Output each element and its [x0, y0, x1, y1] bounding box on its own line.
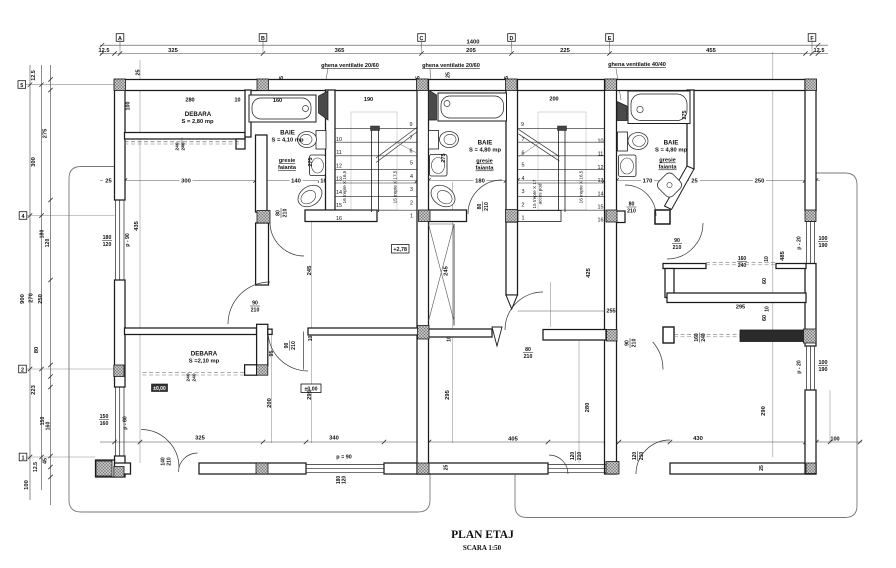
- staircase 1 treads: [335, 128, 417, 130]
- svg-text:S = 4,80 mp: S = 4,80 mp: [655, 148, 688, 154]
- svg-text:S = 4,80 mp: S = 4,80 mp: [469, 148, 502, 154]
- unit1 corridor wall east: [308, 328, 429, 335]
- bottom wall segment B: [199, 463, 306, 474]
- top dimension line 1400: [100, 44, 828, 46]
- sink 3: [619, 155, 637, 177]
- svg-text:90: 90: [674, 238, 680, 244]
- svg-text:160: 160: [273, 98, 282, 104]
- unit2 corridor wall west: [429, 329, 493, 337]
- toilet 1: [316, 131, 326, 150]
- staircase 2 rails: [558, 128, 560, 212]
- svg-text:160: 160: [46, 422, 52, 431]
- svg-text:4: 4: [522, 176, 525, 182]
- level marker +2.78: [392, 245, 410, 254]
- svg-text:6: 6: [410, 149, 413, 155]
- grid bubble 1: [19, 453, 27, 461]
- baie3 south wall west: [617, 211, 626, 223]
- baie1 west wall: [256, 135, 268, 212]
- void shaft with X bracing: [453, 224, 455, 326]
- grid bubble 4: [19, 212, 27, 220]
- svg-text:150: 150: [100, 414, 109, 420]
- svg-text:DEBARA: DEBARA: [191, 351, 218, 358]
- svg-text:3: 3: [410, 187, 413, 193]
- grid line 4: [26, 215, 115, 217]
- closet wall w1: [663, 264, 706, 269]
- svg-text:60: 60: [762, 315, 768, 321]
- svg-text:25: 25: [105, 178, 112, 184]
- svg-text:10: 10: [765, 306, 771, 312]
- debara2 wall foot: [245, 365, 257, 375]
- window bottom (p=90): [306, 464, 384, 466]
- svg-text:160: 160: [694, 333, 700, 342]
- right wall upper segment: [805, 80, 816, 211]
- door baie2: [468, 180, 502, 214]
- svg-text:p = 90: p = 90: [336, 455, 351, 461]
- column E mid: [606, 210, 617, 222]
- svg-text:25: 25: [136, 70, 142, 76]
- bottom wall segment C: [384, 463, 548, 474]
- staircase 1 up-diagonals: [376, 128, 417, 159]
- svg-text:280: 280: [185, 98, 194, 104]
- svg-text:p - 20: p - 20: [797, 360, 803, 374]
- closet wall west: [665, 269, 674, 298]
- svg-text:190: 190: [819, 243, 828, 249]
- svg-text:gresie: gresie: [279, 158, 295, 164]
- column E bottom: [606, 462, 619, 475]
- svg-text:210: 210: [484, 202, 490, 211]
- svg-text:485: 485: [780, 250, 786, 260]
- door debara2: [228, 282, 270, 324]
- svg-text:100: 100: [126, 102, 132, 111]
- unit2 door leaf arrow: [492, 327, 502, 346]
- svg-text:455: 455: [706, 48, 716, 54]
- svg-text:p - 60: p - 60: [123, 416, 129, 430]
- column left mid: [114, 365, 124, 377]
- svg-text:25: 25: [444, 465, 450, 471]
- window left lower (150/160): [115, 387, 117, 456]
- baie3 diagonal wall: [665, 166, 695, 210]
- svg-text:325: 325: [168, 48, 178, 54]
- debara2 wall nib: [268, 329, 272, 334]
- svg-text:90: 90: [284, 343, 290, 349]
- svg-text:1: 1: [22, 455, 25, 461]
- ghena shaft 3: [617, 102, 627, 121]
- y180 labels: [103, 176, 114, 184]
- svg-text:80: 80: [629, 202, 635, 208]
- svg-text:200: 200: [267, 398, 273, 408]
- svg-text:ghena ventilatie 20/60: ghena ventilatie 20/60: [321, 63, 379, 69]
- svg-text:13: 13: [598, 178, 604, 184]
- svg-text:90: 90: [625, 340, 631, 346]
- hall wall below baie1: [256, 223, 269, 285]
- debara1 wall step block: [236, 139, 245, 149]
- right wall lower segment: [805, 390, 816, 474]
- closet south wall: [667, 293, 806, 303]
- column C corridor: [418, 326, 430, 340]
- dashed wardrobe line debara2: [143, 372, 246, 374]
- svg-text:275: 275: [43, 128, 49, 138]
- svg-text:240: 240: [701, 333, 707, 342]
- svg-text:5: 5: [522, 163, 525, 169]
- toilet 2: [429, 131, 439, 150]
- svg-text:80: 80: [525, 347, 531, 353]
- grid bubble 2: [19, 365, 27, 373]
- dashed sliding door closet 1: [706, 262, 776, 264]
- svg-text:405: 405: [508, 437, 518, 443]
- svg-text:90: 90: [252, 301, 258, 307]
- svg-text:p - 20: p - 20: [797, 236, 803, 250]
- svg-text:ghena ventilatie 40/40: ghena ventilatie 40/40: [608, 62, 666, 68]
- svg-text:240: 240: [192, 373, 198, 381]
- dashed sliding door closet 2: [674, 334, 740, 336]
- svg-text:2: 2: [410, 200, 413, 206]
- svg-text:245: 245: [444, 265, 450, 275]
- svg-text:210: 210: [577, 452, 583, 461]
- door bottom-left leaf 1: [141, 430, 179, 468]
- svg-text:11: 11: [336, 150, 342, 156]
- svg-text:BAIE: BAIE: [478, 140, 493, 147]
- svg-text:190: 190: [819, 367, 828, 373]
- bathtub 2: [438, 93, 507, 121]
- level marker 0.00 right: [301, 384, 321, 393]
- left wall lower segment: [115, 456, 126, 477]
- wall D lower stub: [506, 222, 518, 295]
- svg-text:210: 210: [524, 354, 533, 360]
- svg-text:275: 275: [441, 154, 447, 163]
- svg-text:365: 365: [335, 48, 345, 54]
- svg-text:300: 300: [181, 178, 191, 184]
- dashed wardrobe line debara1: [125, 141, 242, 143]
- door unit1 hall: [268, 331, 308, 371]
- toilet 2b: [427, 181, 459, 211]
- svg-text:295: 295: [736, 305, 745, 311]
- grid bubble D: [508, 34, 516, 42]
- grid line 2: [26, 368, 115, 370]
- svg-text:DEBARA: DEBARA: [185, 111, 212, 118]
- baie2 south wall: [429, 210, 467, 222]
- window right lower (100/190): [806, 346, 808, 390]
- svg-text:p - 90: p - 90: [125, 233, 131, 247]
- staircase 2 diagonals: [519, 129, 560, 156]
- column D1: [506, 79, 518, 91]
- column B mid: [257, 211, 270, 224]
- svg-text:3: 3: [522, 189, 525, 195]
- svg-text:210: 210: [167, 457, 173, 466]
- debara1 east wall: [245, 90, 251, 137]
- svg-text:140: 140: [291, 178, 301, 184]
- door baie3: [625, 185, 656, 216]
- svg-text:2: 2: [522, 202, 525, 208]
- wall D axis: [506, 80, 518, 223]
- svg-text:295: 295: [307, 389, 313, 399]
- svg-text:2: 2: [21, 367, 24, 373]
- construction grid lines: [119, 40, 121, 48]
- svg-text:12.5: 12.5: [33, 462, 39, 472]
- grid bubble A: [116, 34, 124, 42]
- svg-text:223: 223: [31, 384, 37, 394]
- svg-text:95: 95: [269, 351, 275, 357]
- svg-text:280: 280: [585, 403, 591, 413]
- svg-text:210: 210: [251, 308, 260, 314]
- svg-text:80: 80: [276, 210, 282, 216]
- closet2 pillar: [663, 327, 674, 343]
- svg-text:100: 100: [830, 437, 839, 443]
- left bay wall bottom: [96, 460, 115, 477]
- wall E axis: [605, 80, 617, 475]
- svg-text:275: 275: [308, 158, 314, 167]
- wall C axis: [417, 80, 429, 475]
- grid bubble F: [808, 34, 816, 42]
- column left bay: [96, 461, 112, 476]
- column left bottom: [114, 467, 124, 478]
- svg-text:12.5: 12.5: [814, 48, 825, 54]
- column E1: [605, 79, 617, 91]
- svg-text:80: 80: [477, 204, 483, 210]
- svg-text:16: 16: [336, 216, 342, 222]
- svg-text:210: 210: [291, 341, 297, 350]
- svg-text:faianta: faianta: [278, 165, 297, 171]
- svg-text:16: 16: [598, 218, 604, 224]
- svg-text:7: 7: [410, 136, 413, 142]
- svg-text:15 trepte X 17,5: 15 trepte X 17,5: [393, 170, 398, 203]
- bottom dimension line: [100, 441, 862, 443]
- svg-text:15: 15: [598, 205, 604, 211]
- svg-text:12: 12: [598, 165, 604, 171]
- ghena shaft 1: [319, 91, 329, 120]
- svg-text:ghena ventilatie 20/60: ghena ventilatie 20/60: [422, 63, 480, 69]
- svg-text:gresie: gresie: [476, 159, 492, 165]
- column D mid: [506, 210, 518, 223]
- svg-text:10: 10: [336, 137, 342, 143]
- column B1: [257, 79, 269, 91]
- ground-floor outline left terrace: [69, 167, 430, 513]
- svg-text:gresie: gresie: [659, 158, 675, 164]
- svg-text:PLAN ETAJ: PLAN ETAJ: [451, 529, 514, 541]
- staircase 1 rails: [371, 128, 373, 212]
- svg-text:290: 290: [761, 406, 767, 416]
- svg-text:270: 270: [29, 293, 35, 303]
- svg-text:SCARA 1:50: SCARA 1:50: [463, 544, 502, 552]
- column F bottom: [806, 463, 816, 474]
- svg-text:10: 10: [764, 256, 770, 262]
- svg-text:425: 425: [586, 267, 592, 277]
- svg-text:7: 7: [522, 137, 525, 143]
- column F1: [805, 79, 817, 91]
- svg-text:6: 6: [522, 151, 525, 157]
- column E corridor: [607, 330, 618, 342]
- svg-text:12.5: 12.5: [31, 70, 37, 81]
- outer top wall: [115, 80, 817, 91]
- svg-text:12.5: 12.5: [99, 48, 110, 54]
- column A1: [114, 79, 126, 91]
- svg-text:245: 245: [307, 265, 313, 275]
- svg-text:275: 275: [682, 111, 688, 120]
- svg-text:10: 10: [308, 336, 314, 342]
- svg-text:10: 10: [598, 139, 604, 145]
- toilet 1b: [294, 181, 326, 211]
- svg-text:25: 25: [691, 178, 698, 184]
- column C bottom: [417, 463, 429, 474]
- svg-text:S = 2,80 mp: S = 2,80 mp: [181, 119, 214, 125]
- svg-text:190: 190: [364, 97, 373, 103]
- corner shower tray: [655, 171, 683, 199]
- grid bubble 5: [18, 81, 26, 89]
- wall section dark band: [740, 330, 806, 342]
- svg-text:205: 205: [466, 48, 476, 54]
- window left upper (180/120): [115, 200, 117, 280]
- svg-text:210: 210: [632, 339, 638, 348]
- door bottom unit2 east: [636, 440, 670, 474]
- svg-text:225: 225: [560, 48, 570, 54]
- svg-text:435: 435: [134, 220, 140, 230]
- svg-text:12: 12: [336, 163, 342, 169]
- svg-text:240: 240: [738, 263, 747, 269]
- svg-text:1: 1: [522, 216, 525, 222]
- baie1/stair1 east wall: [326, 90, 336, 211]
- svg-text:240: 240: [175, 142, 181, 150]
- svg-text:10: 10: [235, 98, 241, 104]
- unit2 corridor wall: [543, 330, 606, 341]
- column F mid: [805, 210, 816, 221]
- svg-text:255: 255: [606, 309, 615, 315]
- svg-text:120: 120: [570, 452, 576, 461]
- svg-text:15 trepte X 17: 15 trepte X 17: [532, 179, 537, 208]
- bathtub 3: [628, 91, 690, 124]
- ground-floor outline right terrace: [515, 173, 857, 518]
- svg-text:80: 80: [34, 347, 40, 353]
- svg-text:210: 210: [283, 209, 289, 218]
- svg-text:160: 160: [100, 421, 109, 427]
- svg-text:120: 120: [342, 476, 348, 485]
- svg-text:430: 430: [693, 436, 703, 442]
- level marker 0.00 left: [152, 384, 168, 392]
- stair1 landing south wall: [305, 210, 377, 222]
- svg-text:4: 4: [22, 214, 25, 220]
- svg-text:9: 9: [410, 122, 413, 128]
- svg-text:180: 180: [40, 230, 46, 239]
- svg-text:25: 25: [446, 72, 452, 78]
- svg-text:100: 100: [24, 480, 30, 490]
- closet wall w2: [776, 264, 806, 269]
- svg-text:120: 120: [632, 452, 638, 461]
- svg-text:S =2,10 mp: S =2,10 mp: [189, 359, 220, 365]
- svg-text:120: 120: [103, 242, 112, 248]
- chimney block: [655, 210, 670, 224]
- svg-text:faianta: faianta: [658, 165, 677, 171]
- svg-text:+2,78: +2,78: [393, 247, 407, 253]
- left wall upper segment: [115, 80, 126, 201]
- top dimension line segments: [100, 53, 828, 55]
- grid bubble E: [606, 34, 614, 42]
- staircase 2 void outline: [538, 112, 586, 210]
- svg-text:295: 295: [445, 389, 451, 399]
- svg-text:S = 4,10 mp: S = 4,10 mp: [271, 138, 304, 144]
- svg-text:170: 170: [643, 178, 653, 184]
- svg-text:240: 240: [186, 373, 192, 381]
- column debara2: [257, 365, 268, 375]
- svg-text:4: 4: [410, 174, 413, 180]
- staircase 2 treads: [518, 128, 605, 130]
- svg-text:5: 5: [410, 161, 413, 167]
- svg-text:180: 180: [103, 235, 112, 241]
- door bottom-left leaf 2: [179, 453, 198, 472]
- grid line 5: [26, 84, 115, 86]
- svg-text:210: 210: [627, 209, 636, 215]
- svg-text:210: 210: [639, 452, 645, 461]
- door baie1: [270, 222, 304, 256]
- staircase 2 landing strip: [518, 211, 561, 222]
- svg-text:210: 210: [673, 245, 682, 251]
- svg-text:9: 9: [521, 122, 524, 128]
- svg-text:180: 180: [475, 178, 485, 184]
- staircase 1 void outline: [351, 112, 397, 210]
- sink 1: [310, 155, 326, 176]
- svg-text:acces pod: acces pod: [538, 183, 543, 204]
- door unit2 entry: [505, 292, 543, 330]
- right wall mid segment: [805, 264, 816, 347]
- svg-text:60: 60: [762, 278, 768, 284]
- svg-text:120: 120: [45, 239, 51, 248]
- left dimension lines: [29, 65, 31, 500]
- column C1: [417, 79, 429, 91]
- unit1 corridor wall west: [125, 328, 257, 335]
- svg-text:100: 100: [819, 360, 828, 366]
- dim 255 between D and E: [518, 310, 605, 312]
- svg-text:±0,00: ±0,00: [153, 386, 166, 392]
- svg-text:45: 45: [43, 458, 49, 464]
- svg-text:325: 325: [195, 436, 205, 442]
- svg-text:900: 900: [20, 294, 26, 304]
- svg-text:5: 5: [20, 83, 23, 89]
- svg-text:25: 25: [759, 465, 765, 471]
- svg-text:11: 11: [598, 152, 604, 158]
- svg-text:200: 200: [549, 97, 558, 103]
- threshold bottom unit2: [548, 464, 606, 466]
- svg-text:340: 340: [329, 436, 339, 442]
- svg-text:250: 250: [38, 294, 44, 304]
- svg-text:160: 160: [738, 256, 747, 262]
- baie3 east wall: [687, 90, 694, 169]
- bathtub 1: [249, 95, 316, 122]
- sink 2: [430, 155, 448, 177]
- toilet 3: [618, 132, 628, 151]
- ghena shaft 2: [429, 90, 437, 120]
- svg-text:10: 10: [447, 336, 453, 342]
- door bottom unit2 west: [549, 455, 568, 474]
- svg-text:1400: 1400: [467, 40, 480, 46]
- interior dimension line y180: [100, 180, 820, 182]
- column B bottom: [256, 463, 268, 474]
- left wall middle segment: [115, 280, 126, 387]
- debara2 east wall: [257, 324, 268, 365]
- door SE room: [667, 223, 703, 259]
- svg-text:BAIE: BAIE: [280, 130, 295, 137]
- svg-text:100: 100: [819, 236, 828, 242]
- svg-text:14: 14: [598, 191, 604, 197]
- window right upper (100/190): [806, 222, 808, 264]
- svg-text:faianta: faianta: [475, 166, 494, 172]
- column F closet: [804, 329, 817, 343]
- bottom wall east segment: [670, 463, 816, 474]
- svg-text:16 trepte X 16,5: 16 trepte X 16,5: [342, 170, 347, 203]
- svg-text:1: 1: [410, 214, 413, 220]
- svg-text:300: 300: [31, 157, 37, 167]
- column C mid: [419, 210, 431, 222]
- svg-text:250: 250: [755, 178, 765, 184]
- svg-text:BAIE: BAIE: [664, 140, 679, 147]
- grid bubble C: [418, 34, 426, 42]
- debara1 south wall: [125, 133, 246, 140]
